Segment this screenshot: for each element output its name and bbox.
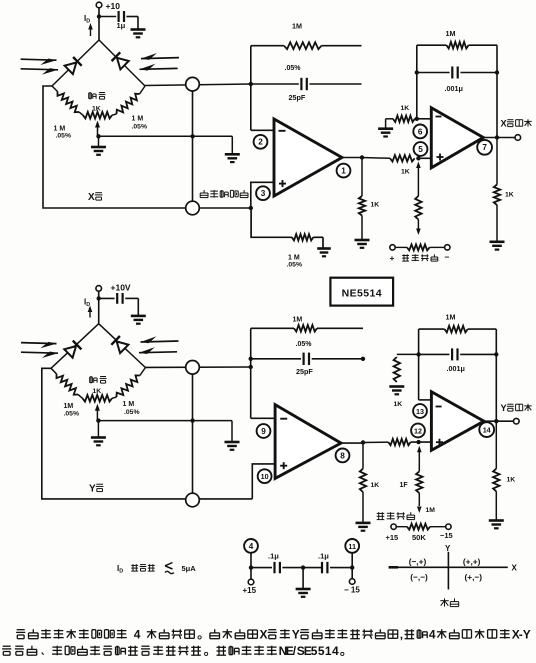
- svg-text:.05%: .05%: [287, 261, 303, 268]
- quadrant Y axis line: [447, 552, 449, 590]
- svg-text:.001μ: .001μ: [445, 84, 463, 93]
- wire center to ground: [302, 568, 304, 589]
- wire U3 output: [341, 442, 363, 444]
- svg-text:1M: 1M: [292, 22, 302, 31]
- svg-text:−: −: [445, 252, 450, 262]
- potentiometer balance 1K (Y): [83, 395, 113, 402]
- wire feedback top (U1): [251, 45, 284, 47]
- pin 3 circle: [256, 186, 270, 200]
- pin 13 circle: [413, 404, 427, 418]
- pin 5 circle: [414, 142, 428, 156]
- svg-text:1K: 1K: [401, 168, 410, 175]
- resistor 1M .05% feedback (U1): [284, 42, 322, 49]
- svg-text:25pF: 25pF: [296, 367, 313, 376]
- capacitor C4 .1u: [321, 562, 323, 573]
- svg-text:+15: +15: [386, 533, 399, 542]
- svg-text:5: 5: [318, 644, 325, 658]
- terminal -15: [349, 579, 355, 585]
- svg-text:Y: Y: [445, 544, 451, 553]
- svg-text:.1μ: .1μ: [318, 552, 329, 561]
- label balance (Y): [90, 376, 93, 378]
- wire pin4 down: [250, 553, 252, 568]
- svg-text:−15: −15: [440, 531, 453, 540]
- label quadrant title: [444, 598, 446, 606]
- svg-text:1K: 1K: [507, 477, 516, 484]
- resistor 1K to ground (U1 out): [359, 196, 365, 216]
- svg-text:6: 6: [418, 127, 423, 136]
- caption line 2: [3, 645, 11, 647]
- wire bridge upper-right arm (Y): [99, 324, 146, 368]
- svg-text:X: X: [260, 628, 268, 642]
- wire 1K to ground (U2 out): [496, 205, 498, 242]
- wire into pin 12: [411, 441, 432, 443]
- ground pin13 1K (Y): [389, 385, 404, 388]
- svg-text:.05%: .05%: [56, 133, 72, 140]
- wire U3 out to 1K pin12: [363, 441, 388, 443]
- svg-text:NE5514: NE5514: [342, 287, 382, 299]
- terminal +10 supply (X): [96, 2, 102, 8]
- capacitor C1 1u (X supply bypass): [117, 11, 119, 22]
- junction input node (Y): [249, 365, 253, 369]
- wire 25pF row (U3): [251, 358, 301, 360]
- capacitor 25pF feedback (U1): [300, 78, 302, 90]
- svg-text:1K: 1K: [371, 482, 380, 489]
- resistor 1K U2 output load: [494, 185, 500, 206]
- svg-text:7: 7: [482, 143, 487, 152]
- wire 1K to ground (U4 out): [495, 491, 497, 520]
- svg-text:50K: 50K: [412, 533, 426, 542]
- svg-text:5μA: 5μA: [182, 564, 197, 573]
- svg-text:.05%: .05%: [132, 124, 148, 131]
- wire up to pin 3: [251, 182, 274, 208]
- resistor 1M .05% lower-right arm (Y): [140, 368, 146, 376]
- potentiometer DC zero (X): [407, 244, 430, 250]
- svg-text:.05%: .05%: [296, 341, 313, 348]
- photodiode D2 (X right): [117, 58, 129, 70]
- svg-text:8: 8: [340, 451, 345, 460]
- pin 12 circle: [411, 424, 425, 438]
- resistor 1M feedback (U2): [447, 42, 469, 49]
- junction U1 output node: [360, 155, 364, 159]
- wire to capacitor C1: [99, 16, 116, 18]
- terminal dc-zero right (Y): [446, 524, 451, 529]
- wire U4 fb left vertical: [418, 329, 420, 400]
- wire dc-zero arrow up (Y): [417, 446, 422, 453]
- svg-text:X: X: [512, 564, 518, 573]
- svg-text:4: 4: [134, 628, 141, 642]
- svg-text:1K: 1K: [401, 105, 410, 112]
- wire left vertex down-around (X axis bus): [43, 86, 251, 208]
- svg-text:1K: 1K: [92, 105, 101, 112]
- pin 8 circle: [336, 449, 350, 463]
- ground below wiper (Y): [91, 436, 106, 439]
- U4 plus sign: [436, 441, 443, 443]
- wire C4 to pin11: [330, 567, 352, 569]
- svg-text:.05%: .05%: [64, 410, 80, 417]
- wire bridge upper-left arm (Y): [51, 324, 99, 369]
- svg-text:1M: 1M: [446, 313, 456, 322]
- ground pin3 1M: [317, 247, 331, 250]
- wire up to pin 10: [252, 464, 275, 499]
- resistor 1F dc-zero vertical (Y): [416, 471, 422, 493]
- wire right vertex to input node (X): [145, 84, 251, 86]
- junction pin4 node: [249, 565, 253, 569]
- wire pin11 to -15 terminal: [351, 568, 353, 579]
- svg-text:(+,−): (+,−): [465, 572, 483, 582]
- svg-text:(−,+): (−,+): [409, 557, 427, 567]
- wire U1 out to 1K pin5: [362, 157, 390, 160]
- pin 7 circle: [477, 140, 492, 155]
- ground below wiper (X): [91, 146, 106, 149]
- wire ground to 1K (pin6): [385, 119, 387, 129]
- wire bridge upper-right arm (X): [99, 40, 145, 86]
- U2 minus sign: [436, 116, 442, 118]
- U1 plus sign: [279, 183, 286, 185]
- resistor 1K to ground (U3 out): [360, 469, 366, 492]
- svg-text:+10V: +10V: [111, 283, 131, 293]
- svg-text:Y: Y: [523, 628, 531, 642]
- wire pot to terminal (X dc): [430, 246, 445, 248]
- resistor 1K to pin 12: [388, 439, 410, 445]
- wire U4 output: [484, 420, 513, 422]
- svg-text:1: 1: [325, 644, 332, 658]
- terminal dc-zero right (X): [445, 245, 450, 250]
- U4 minus sign: [436, 406, 442, 408]
- resistor 1M .05% feedback (U3): [294, 325, 317, 332]
- wire C2 to ground: [125, 297, 138, 299]
- wire into pin 5: [418, 157, 431, 159]
- junction input node (X): [249, 82, 253, 86]
- ground decoupling: [296, 588, 311, 591]
- wire pin4 to C3: [251, 567, 272, 569]
- wire into pin 6: [417, 118, 432, 120]
- wire U2 output: [483, 137, 515, 139]
- wire 1M to ground (pin3): [313, 236, 323, 238]
- junction pin6 node: [415, 117, 419, 121]
- wire bridge upper-left arm (X): [52, 40, 99, 86]
- wire cap row to 1K (pin13): [397, 353, 419, 355]
- svg-text:.05%: .05%: [285, 65, 302, 72]
- wire pin4 to +15 terminal: [250, 568, 252, 580]
- junction U4 cap right: [494, 352, 498, 356]
- terminal +10V supply (Y): [96, 286, 102, 292]
- svg-text:13: 13: [416, 407, 424, 416]
- wire 25pF row (U1): [251, 83, 299, 85]
- wire wiper to ground (X): [98, 136, 100, 147]
- wire feedback top (U3): [251, 327, 294, 329]
- svg-text:1M: 1M: [446, 29, 456, 38]
- svg-text:1 M: 1 M: [54, 125, 66, 132]
- pin 4 circle: [244, 539, 258, 553]
- wire dc-zero arrow down (X): [417, 220, 419, 229]
- terminal +15: [248, 579, 254, 585]
- node circle signal common (X): [186, 201, 200, 215]
- svg-text:1F: 1F: [400, 482, 409, 489]
- svg-text:(−,−): (−,−): [410, 572, 428, 582]
- wire U4 cap row: [419, 353, 450, 355]
- quadrant X axis line: [389, 566, 508, 568]
- junction supply node (X): [97, 14, 101, 18]
- light arrows into D2: [141, 58, 179, 59]
- svg-text:X: X: [501, 119, 508, 129]
- svg-text:1K: 1K: [505, 192, 514, 199]
- node circle bridge output (Y): [186, 361, 200, 375]
- junction wiper node (Y): [96, 418, 100, 422]
- pin 2 circle: [254, 135, 268, 149]
- resistor 1M .05% lower-left arm (X): [52, 86, 58, 92]
- svg-text:(+,+): (+,+): [463, 557, 481, 567]
- terminal dc-zero left (X): [390, 245, 395, 250]
- wire U2 fb left vertical: [416, 45, 418, 119]
- svg-text:.1μ: .1μ: [268, 552, 279, 561]
- pin 11 circle: [345, 539, 359, 553]
- light arrows into D4: [141, 341, 179, 342]
- wire center to C4: [303, 567, 322, 569]
- wire to pot (X dc): [395, 246, 407, 248]
- wire C1 to ground: [126, 16, 138, 18]
- wire U2 cap row: [417, 72, 450, 74]
- svg-text:25pF: 25pF: [289, 93, 306, 102]
- current arrow Ip (Y): [89, 309, 91, 318]
- label DC zero point (X): [402, 255, 409, 257]
- svg-text:1 M: 1 M: [123, 401, 135, 408]
- junction wiper node (X): [96, 134, 100, 138]
- op-amp U4 triangle: [431, 392, 484, 451]
- pin 6 circle: [413, 124, 427, 138]
- wire supply to bridge apex (Y): [98, 291, 100, 324]
- resistor 1K pin 6: [393, 116, 415, 122]
- terminal Y axis output: [514, 418, 520, 424]
- svg-text:5: 5: [311, 644, 318, 658]
- svg-text:1K: 1K: [371, 202, 380, 209]
- svg-text:12: 12: [414, 426, 422, 435]
- junction pin12 node: [416, 440, 420, 444]
- junction decoupling center: [301, 565, 305, 569]
- pin 14 circle: [479, 422, 494, 437]
- ground below U3 output 1K: [356, 522, 371, 525]
- junction U4 output node: [494, 419, 498, 423]
- svg-text:− 15: − 15: [344, 586, 360, 595]
- junction wiper wire crossing (Y): [190, 418, 194, 422]
- svg-text:+15: +15: [243, 586, 257, 595]
- capacitor 25pF feedback (U3): [303, 353, 305, 365]
- svg-text:+10: +10: [106, 1, 121, 11]
- caption line 1: [17, 629, 25, 631]
- wire U2 fb right vertical: [496, 45, 498, 137]
- resistor 1M .05% pin3 to ground: [292, 234, 313, 240]
- wire dc-zero arrow down (Y): [418, 493, 420, 506]
- resistor 1K to pin 5: [390, 155, 415, 161]
- svg-text:9: 9: [261, 427, 266, 436]
- op-amp U2 triangle: [431, 108, 483, 168]
- svg-text:,: ,: [400, 628, 403, 642]
- terminal X axis output: [515, 135, 521, 141]
- wire dc-zero arrow up (X): [416, 162, 421, 169]
- junction U3 cap left: [249, 357, 253, 361]
- wire pot to terminal (Y dc): [430, 526, 446, 528]
- svg-text:1K: 1K: [394, 401, 403, 408]
- svg-text:14: 14: [483, 426, 491, 435]
- pot wiper arrow (Y): [95, 404, 100, 411]
- wire U2 out to 1K: [496, 138, 498, 185]
- ground right of bridge (Y): [225, 441, 240, 444]
- pot wiper arrow (X): [95, 121, 100, 128]
- svg-text:1K: 1K: [93, 388, 102, 395]
- terminal dc-zero left (Y): [391, 524, 396, 529]
- svg-text:1: 1: [341, 167, 346, 176]
- svg-text:5: 5: [418, 145, 423, 154]
- svg-text:Y: Y: [501, 403, 507, 413]
- potentiometer DC zero 50K (Y): [407, 524, 430, 530]
- op-amp U1 triangle: [274, 119, 342, 196]
- svg-text:.05%: .05%: [124, 409, 140, 416]
- junction common to pin3 (X): [249, 206, 253, 210]
- svg-text:1M: 1M: [426, 507, 436, 514]
- photodiode D4 (Y right): [117, 342, 129, 354]
- U2 plus sign: [437, 156, 444, 158]
- svg-text:11: 11: [348, 542, 356, 551]
- pin 10 circle: [258, 469, 272, 483]
- wire left vertex down-around (Y axis bus): [42, 368, 253, 499]
- light arrows into D1: [21, 59, 57, 60]
- pin 9 circle: [257, 424, 271, 438]
- ground right of bridge (X): [225, 153, 240, 156]
- wire to pot (Y dc): [396, 526, 407, 528]
- IC label box NE5514: [330, 278, 393, 306]
- junction pin11 node: [350, 565, 354, 569]
- svg-text:4: 4: [249, 542, 254, 551]
- ground below U1 output 1K: [355, 239, 370, 242]
- resistor 1M .05% lower-right arm (X): [140, 86, 146, 94]
- wire output to 1K load (U3): [362, 443, 364, 469]
- wire input vertical (U3): [250, 328, 252, 418]
- svg-text:1M: 1M: [293, 317, 303, 324]
- svg-text:Y: Y: [292, 628, 300, 642]
- svg-text:1M: 1M: [64, 403, 74, 410]
- wire right vertex to input node (Y): [145, 366, 250, 368]
- current arrow Ip (X): [90, 26, 92, 36]
- junction U2 output node: [495, 135, 499, 139]
- wire output to 1K load (U1): [361, 158, 363, 197]
- U1 minus sign: [279, 130, 286, 132]
- wire pin11 down: [351, 553, 353, 568]
- svg-text:Y: Y: [89, 484, 96, 495]
- ground below U2 output 1K: [490, 241, 505, 244]
- junction U2 cap right: [495, 70, 499, 74]
- svg-text:3: 3: [261, 189, 266, 198]
- wire pin3 node to 1M ground leg: [251, 208, 292, 237]
- wire wiper to ground (Y): [97, 421, 99, 438]
- wire wiper node to right ground (X): [99, 135, 233, 137]
- node circle bridge output (X): [186, 77, 200, 91]
- U3 minus sign: [280, 418, 287, 420]
- potentiometer balance 1K (X): [83, 112, 112, 119]
- photodiode D1 (X left): [65, 63, 77, 75]
- svg-text:2: 2: [258, 138, 263, 147]
- wire supply to bridge apex (X): [98, 8, 100, 40]
- resistor 1M .05% lower-left arm (Y): [51, 368, 57, 374]
- svg-text:+: +: [390, 253, 395, 263]
- svg-text:X: X: [88, 192, 95, 203]
- resistor 1K pin 13 to ground: [394, 357, 400, 382]
- resistor dc-zero vertical (X): [415, 196, 421, 220]
- junction U2 cap left: [415, 70, 419, 74]
- wire U4 fb right vertical: [495, 329, 497, 421]
- resistor 1K U4 output load: [493, 469, 499, 492]
- junction U3 output node: [361, 440, 365, 444]
- label signal common point: [203, 190, 205, 193]
- wire 1K to ground (U1 out): [361, 216, 363, 241]
- photodiode D3 (Y left): [64, 346, 76, 358]
- capacitor .001u feedback (U4): [451, 348, 453, 360]
- label DC zero point (Y): [377, 512, 385, 514]
- wire U4 out to 1K: [495, 421, 497, 468]
- svg-text:10: 10: [261, 472, 269, 481]
- wire node circles vertical (X): [192, 91, 194, 202]
- light arrows into D3: [21, 343, 57, 344]
- junction U3 cap right: [361, 357, 365, 361]
- ground below C2: [131, 315, 146, 318]
- pin 1 circle: [337, 164, 351, 178]
- capacitor .001u feedback (U2): [451, 67, 453, 79]
- wire C3 to center: [282, 567, 303, 569]
- junction U4 cap left: [416, 352, 420, 356]
- wire U2 fb top: [417, 44, 447, 46]
- wire 1K to ground (U3 out): [362, 492, 364, 523]
- svg-text:4: 4: [332, 644, 339, 658]
- wire node circles vertical (Y): [192, 374, 194, 493]
- capacitor C3 .1u: [273, 562, 275, 573]
- wire U4 fb top: [419, 328, 445, 330]
- svg-text:1μ: 1μ: [117, 21, 126, 30]
- wire to capacitor C2: [99, 297, 115, 299]
- junction wiper wire crossing (X): [190, 134, 194, 138]
- op-amp U3 triangle: [275, 405, 341, 479]
- wire U1 output: [342, 157, 362, 159]
- wire input vertical (U1): [250, 46, 252, 131]
- resistor 1M feedback (U4): [445, 326, 468, 333]
- svg-text:1 M: 1 M: [132, 116, 144, 123]
- ground below U4 output 1K: [489, 519, 504, 522]
- label balance (X): [89, 92, 92, 94]
- svg-text:4: 4: [429, 628, 436, 642]
- ground below C1: [131, 28, 146, 31]
- svg-text:.001μ: .001μ: [447, 364, 465, 373]
- junction supply node (Y): [97, 296, 101, 300]
- U3 plus sign: [280, 465, 287, 467]
- ground pin6 1K (X): [378, 127, 393, 130]
- capacitor C2 supply bypass (Y): [116, 293, 118, 304]
- wire wiper node to right ground (Y): [98, 420, 232, 422]
- junction pin5 node: [416, 156, 420, 160]
- node circle common (Y): [186, 493, 200, 507]
